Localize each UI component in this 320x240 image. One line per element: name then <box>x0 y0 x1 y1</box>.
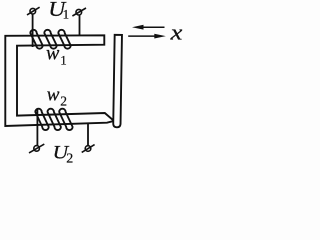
wire: right lead of w1 to terminal <box>79 15 81 35</box>
svg-text:w: w <box>46 43 60 65</box>
svg-text:2: 2 <box>66 152 73 166</box>
svg-text:w: w <box>47 85 60 106</box>
terminal (top right) <box>72 8 86 16</box>
arrow: displacement right <box>128 34 166 39</box>
terminal (bottom right) <box>82 145 95 153</box>
wire: left lead of w2 to terminal <box>36 109 38 146</box>
magnetic core (C-shaped yoke) <box>5 35 114 126</box>
winding w2 turn 2 <box>48 109 61 130</box>
arrow: displacement left <box>132 25 165 30</box>
winding w2 turn 1 <box>35 109 48 130</box>
svg-text:1: 1 <box>63 7 70 22</box>
winding w1 turn 3 <box>58 30 70 49</box>
winding w2 turn 3 <box>59 109 72 130</box>
armature (movable plunger bar, tilted about bottom pivot) <box>113 35 122 128</box>
svg-text:1: 1 <box>60 52 66 67</box>
winding w1 turn 1 <box>30 30 42 49</box>
svg-text:2: 2 <box>60 94 67 109</box>
winding w1 turn 2 <box>44 30 56 49</box>
svg-text:x: x <box>170 21 183 45</box>
wire: left lead of w1 to terminal <box>32 14 34 47</box>
terminal (bottom left) <box>29 144 44 153</box>
wire: right lead of w2 to terminal <box>87 123 89 145</box>
terminal (top left) <box>27 7 40 15</box>
